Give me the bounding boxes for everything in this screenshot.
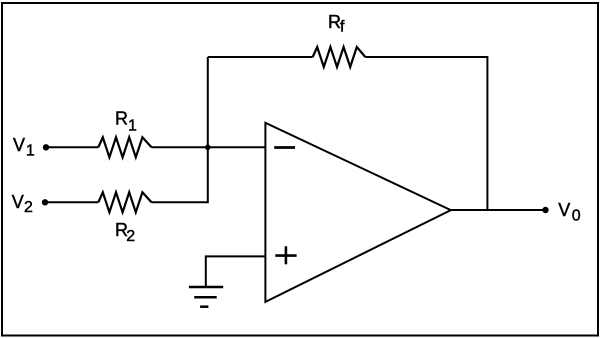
wire junction up to feedback	[207, 57, 209, 147]
label non-inverting input (+)	[275, 246, 296, 264]
resistor R1	[98, 137, 151, 157]
label V0	[558, 200, 581, 224]
svg-text:2: 2	[126, 228, 135, 245]
wire junction to op-amp inverting input	[208, 146, 266, 148]
resistor Rf	[313, 47, 366, 67]
label Rf	[328, 12, 345, 36]
wire feedback left segment	[208, 56, 313, 58]
label V2	[12, 192, 33, 216]
wire feedback right segment down to output	[365, 57, 487, 210]
svg-text:V: V	[558, 200, 570, 220]
label R1	[115, 109, 137, 135]
svg-text:V: V	[13, 135, 25, 155]
svg-text:0: 0	[572, 207, 581, 224]
wire R1 to inverting junction	[152, 146, 208, 148]
svg-text:V: V	[12, 192, 24, 212]
label V1	[13, 135, 35, 159]
wire V2 to R2	[45, 201, 98, 203]
wire R2 to junction riser	[152, 147, 208, 202]
svg-text:R: R	[115, 109, 128, 129]
resistor R2	[98, 192, 151, 212]
node V1 input terminal	[43, 144, 49, 150]
node junction (inverting summing node)	[205, 145, 211, 151]
label inverting input (-)	[274, 146, 295, 149]
node V0 output terminal	[542, 207, 548, 213]
op-amp U1	[265, 123, 450, 302]
label R2	[115, 220, 135, 245]
svg-text:2: 2	[24, 199, 33, 216]
ground	[189, 287, 223, 307]
node V2 input terminal	[42, 199, 48, 205]
svg-text:f: f	[340, 19, 345, 36]
wire non-inverting input to ground	[206, 256, 266, 287]
svg-text:1: 1	[26, 142, 35, 159]
wire op-amp output to V0 terminal	[451, 209, 546, 211]
svg-text:1: 1	[128, 117, 137, 134]
wire V1 to R1	[46, 146, 98, 148]
